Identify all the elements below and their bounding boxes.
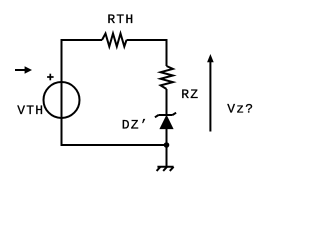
- label VTH: [17, 103, 44, 118]
- wire left vertical branch: [61, 39, 63, 145]
- svg-text:DZ’: DZ’: [122, 118, 149, 133]
- wire top right segment: [127, 39, 168, 41]
- wire right vertical middle: [166, 89, 168, 116]
- svg-text:RTH: RTH: [107, 12, 134, 27]
- wire right vertical upper: [166, 39, 168, 66]
- ground: [157, 167, 174, 171]
- input current arrow: [15, 66, 32, 73]
- voltage source VTH: [44, 82, 80, 118]
- plus sign of source: [47, 74, 54, 81]
- junction node dot: [164, 142, 170, 148]
- resistor RZ: [161, 66, 173, 89]
- label DZ': [122, 118, 149, 133]
- wire right vertical lower: [166, 128, 168, 167]
- output voltage arrow Vz: [207, 54, 214, 132]
- label RZ: [181, 87, 199, 102]
- resistor RTH: [102, 34, 127, 47]
- label Vz?: [227, 102, 254, 117]
- zener diode DZ': [155, 113, 176, 129]
- label RTH: [107, 12, 134, 27]
- wire bottom horizontal: [61, 144, 167, 146]
- svg-text:RZ: RZ: [181, 87, 199, 102]
- svg-text:VTH: VTH: [17, 103, 44, 118]
- wire top left segment: [61, 39, 103, 41]
- svg-text:Vz?: Vz?: [227, 102, 254, 117]
